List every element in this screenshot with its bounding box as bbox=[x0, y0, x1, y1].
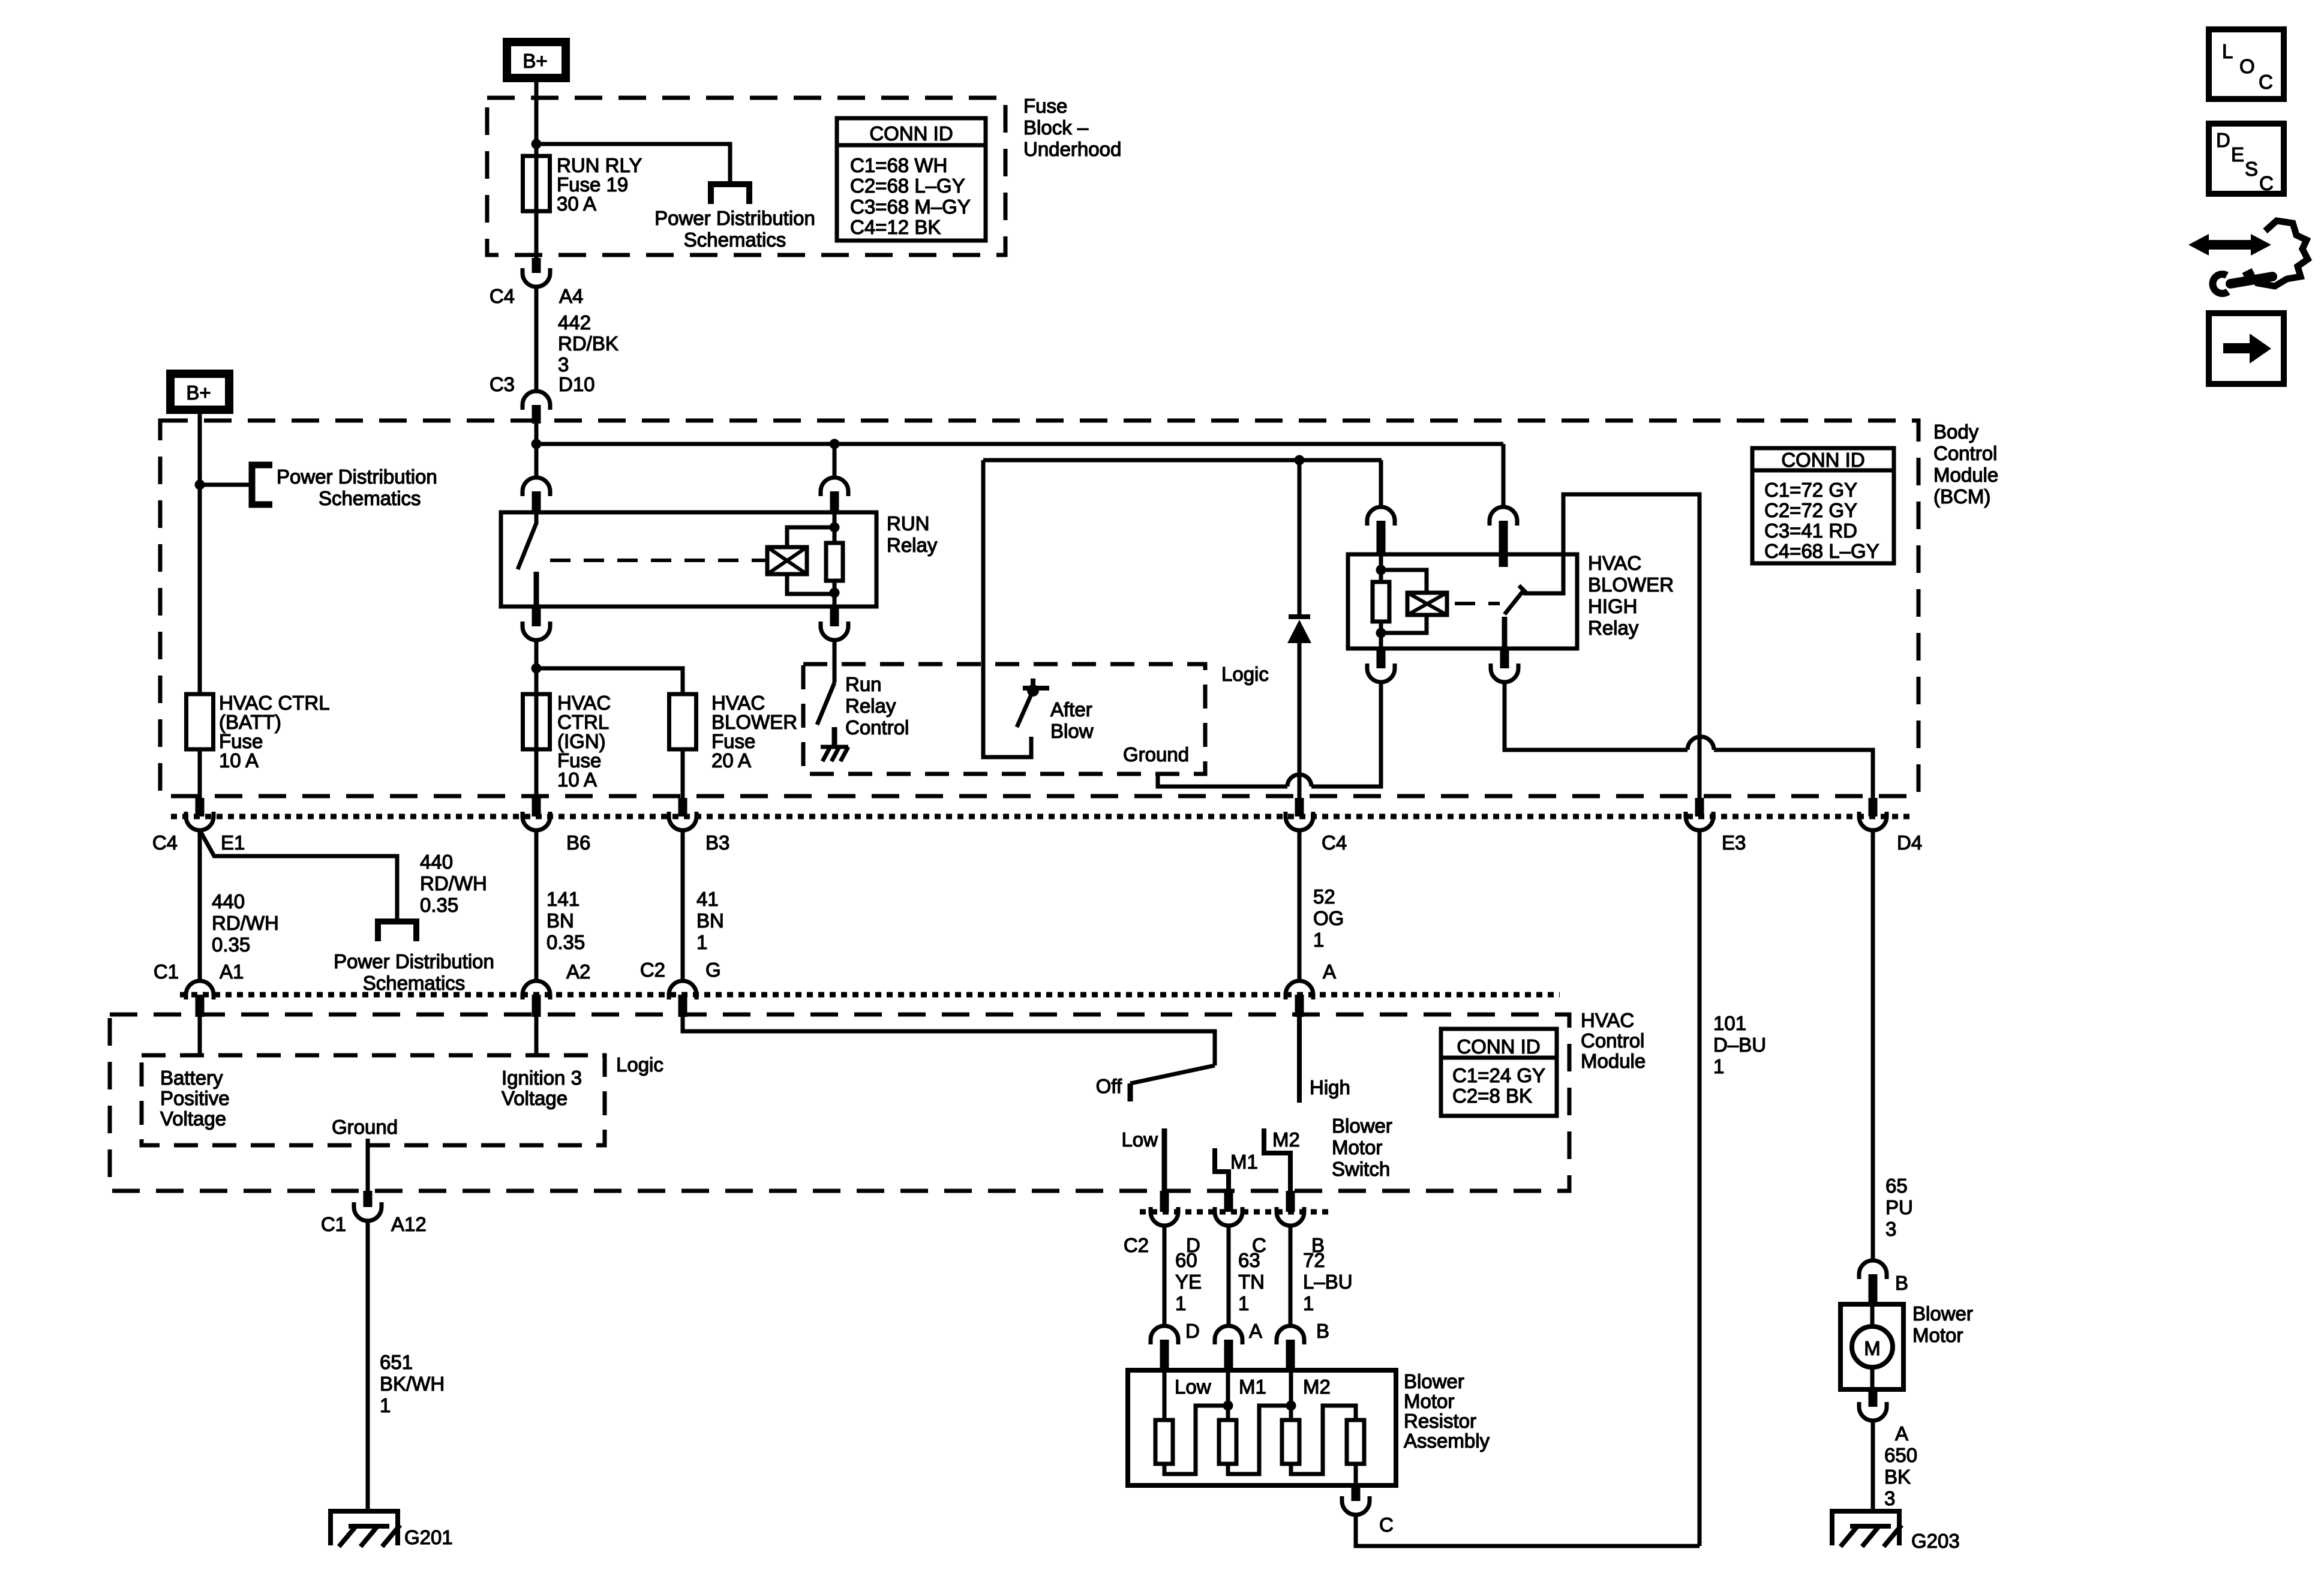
wire 442 RD/BK 3 bbox=[535, 287, 539, 391]
svg-text:141: 141 bbox=[547, 888, 580, 910]
connector C4 / A4 (fuse block to harness) bbox=[532, 258, 541, 273]
svg-text:Motor: Motor bbox=[1404, 1390, 1454, 1412]
svg-text:HVAC: HVAC bbox=[1581, 1009, 1634, 1031]
svg-text:0.35: 0.35 bbox=[547, 931, 585, 953]
RUN relay switch fixed contact bbox=[534, 572, 539, 607]
svg-text:(BCM): (BCM) bbox=[1933, 485, 1990, 508]
connector C1 / A1 (HVAC control module) bbox=[186, 981, 214, 999]
svg-text:E1: E1 bbox=[221, 831, 245, 854]
svg-text:A: A bbox=[1323, 960, 1336, 983]
svg-text:O: O bbox=[2239, 55, 2255, 77]
svg-text:After: After bbox=[1050, 698, 1092, 721]
svg-text:1: 1 bbox=[1238, 1292, 1249, 1314]
icon hood-open double arrow with wrench bbox=[2188, 234, 2271, 256]
svg-text:Relay: Relay bbox=[887, 534, 938, 556]
svg-text:C3: C3 bbox=[490, 373, 515, 395]
svg-text:Motor: Motor bbox=[1332, 1136, 1382, 1158]
svg-text:30 A: 30 A bbox=[557, 193, 596, 215]
svg-text:L: L bbox=[2222, 40, 2233, 62]
resistor Low bbox=[1163, 1371, 1167, 1420]
junction node main bus bbox=[532, 439, 542, 449]
RUN relay coil output pin (bottom) bbox=[830, 607, 839, 626]
svg-text:Positive: Positive bbox=[160, 1087, 230, 1109]
wire 41 BN 1 bbox=[681, 830, 685, 980]
svg-text:Power Distribution: Power Distribution bbox=[334, 950, 494, 972]
svg-text:RD/WH: RD/WH bbox=[420, 872, 487, 894]
svg-text:Low: Low bbox=[1175, 1376, 1211, 1398]
CONN ID table (BCM) bbox=[1752, 448, 1894, 563]
after blow switch blade bbox=[1017, 691, 1033, 727]
svg-text:D10: D10 bbox=[559, 373, 595, 395]
svg-text:B+: B+ bbox=[186, 382, 211, 404]
wire 440 RD/WH 0.35 bbox=[198, 830, 202, 980]
wire branch to power distribution bbox=[536, 144, 730, 184]
run relay control fixed contact bbox=[832, 727, 837, 746]
fuse block underhood dashed box bbox=[487, 98, 1005, 255]
HVAC control module top connector face dotted line bbox=[180, 992, 1560, 998]
svg-text:RD/WH: RD/WH bbox=[212, 912, 279, 934]
fuse HVAC CTRL (BATT) 10 A bbox=[187, 694, 214, 749]
icon forward arrow bbox=[2209, 313, 2284, 384]
svg-text:C1=24 GY: C1=24 GY bbox=[1452, 1064, 1545, 1086]
svg-text:A4: A4 bbox=[559, 285, 583, 307]
svg-text:Body: Body bbox=[1933, 421, 1979, 443]
fuse HVAC BLOWER 20 A bbox=[669, 694, 696, 749]
svg-text:C4: C4 bbox=[490, 285, 515, 307]
svg-text:C2: C2 bbox=[640, 959, 665, 981]
blower motor circle M bbox=[1852, 1326, 1893, 1367]
blower motor resistor assembly box bbox=[1128, 1370, 1396, 1485]
svg-text:Blower: Blower bbox=[1912, 1302, 1973, 1325]
wire hop over diode wire bbox=[1287, 775, 1311, 786]
svg-text:C1: C1 bbox=[154, 960, 179, 983]
svg-text:BK/WH: BK/WH bbox=[380, 1373, 445, 1395]
connector G (HVAC control module) bbox=[669, 981, 696, 999]
wire 101 D-BU 1 (to resistor assembly) bbox=[1698, 830, 1702, 1546]
svg-text:Power Distribution: Power Distribution bbox=[277, 466, 437, 488]
blower switch M1 contact bbox=[1215, 1148, 1229, 1191]
svg-text:A: A bbox=[1249, 1320, 1262, 1342]
wire 60 YE 1 bbox=[1163, 1226, 1167, 1326]
svg-text:1: 1 bbox=[380, 1394, 391, 1416]
svg-text:C1: C1 bbox=[321, 1213, 346, 1235]
svg-text:Low: Low bbox=[1121, 1128, 1158, 1151]
HVAC control module dashed box bbox=[110, 1014, 1569, 1191]
svg-text:D: D bbox=[1185, 1320, 1200, 1342]
connector E3 (BCM) bbox=[1695, 798, 1704, 816]
svg-text:BN: BN bbox=[696, 909, 724, 932]
svg-text:RD/BK: RD/BK bbox=[558, 332, 618, 355]
icon LOC bbox=[2209, 29, 2284, 99]
fuse HVAC CTRL (IGN) 10 A bbox=[523, 694, 550, 749]
svg-text:B3: B3 bbox=[705, 831, 729, 854]
svg-text:Ground: Ground bbox=[332, 1116, 398, 1138]
resistor link Low to M1 bbox=[1164, 1406, 1228, 1474]
svg-text:0.35: 0.35 bbox=[420, 894, 458, 916]
svg-text:Assembly: Assembly bbox=[1404, 1430, 1490, 1452]
ground wire from HVAC CM logic bbox=[366, 1139, 370, 1191]
svg-text:52: 52 bbox=[1313, 885, 1335, 908]
svg-text:S: S bbox=[2245, 158, 2258, 180]
wire B+ into fuse block bbox=[535, 78, 539, 260]
CONN ID table (fuse block) bbox=[837, 118, 986, 241]
svg-text:BN: BN bbox=[547, 909, 574, 932]
connector C (resistor assembly output) bbox=[1352, 1485, 1361, 1501]
run relay control switch blade bbox=[817, 683, 834, 725]
wire blower fuse to connector B3 bbox=[681, 749, 685, 798]
svg-text:Control: Control bbox=[845, 716, 909, 739]
svg-text:L–BU: L–BU bbox=[1303, 1271, 1353, 1293]
HVAC CM logic dashed box bbox=[142, 1055, 605, 1145]
svg-text:10 A: 10 A bbox=[557, 769, 597, 791]
svg-text:0.35: 0.35 bbox=[212, 933, 250, 956]
wire 41 BN to blower switch common bbox=[683, 1017, 1215, 1065]
run relay control switch wire bbox=[833, 666, 837, 683]
connector B6 (BCM) bbox=[532, 798, 541, 816]
svg-text:650: 650 bbox=[1884, 1444, 1917, 1466]
svg-text:A: A bbox=[1895, 1422, 1908, 1445]
connector A (resistor assembly) bbox=[1215, 1326, 1242, 1344]
after blow feed bus bbox=[983, 460, 1031, 757]
CONN ID table (HVAC control module) bbox=[1441, 1029, 1557, 1116]
svg-text:1: 1 bbox=[1313, 929, 1324, 951]
svg-text:C2: C2 bbox=[1124, 1234, 1149, 1256]
svg-text:Ignition 3: Ignition 3 bbox=[502, 1067, 582, 1089]
svg-text:Off: Off bbox=[1096, 1075, 1122, 1097]
svg-text:B+: B+ bbox=[523, 50, 547, 72]
junction node bbox=[532, 139, 542, 149]
svg-text:3: 3 bbox=[558, 353, 569, 376]
resistor M2 bbox=[1286, 1401, 1296, 1411]
svg-text:C4=12 BK: C4=12 BK bbox=[850, 216, 941, 238]
svg-text:C3=41 RD: C3=41 RD bbox=[1764, 520, 1857, 542]
junction node coil drop bbox=[830, 439, 840, 449]
connector C1 / A12 bbox=[364, 1191, 373, 1207]
svg-text:Schematics: Schematics bbox=[363, 972, 466, 994]
RUN relay coil pin top bbox=[833, 444, 837, 478]
svg-text:M2: M2 bbox=[1303, 1376, 1331, 1398]
blower switch M2 contact bbox=[1264, 1128, 1290, 1191]
wire 72 L-BU 1 bbox=[1289, 1226, 1293, 1326]
connector C4 / E1 (BCM pin E1) bbox=[196, 798, 205, 816]
svg-text:A1: A1 bbox=[220, 960, 244, 983]
svg-text:RUN: RUN bbox=[887, 512, 930, 535]
connector C2 pin C bbox=[1224, 1191, 1233, 1212]
power distribution schematics pointer symbol bbox=[711, 184, 749, 204]
connector D (resistor assembly) bbox=[1151, 1326, 1178, 1344]
connector C3 / D10 (into BCM) bbox=[523, 391, 550, 410]
wire 650 BK 3 bbox=[1871, 1421, 1875, 1512]
svg-text:65: 65 bbox=[1885, 1175, 1908, 1197]
svg-text:3: 3 bbox=[1884, 1487, 1895, 1509]
svg-text:63: 63 bbox=[1238, 1249, 1260, 1271]
wire branch to HVAC BLOWER fuse bbox=[536, 668, 683, 694]
power symbol B+ (BCM battery feed) bbox=[170, 374, 229, 410]
svg-text:10 A: 10 A bbox=[219, 749, 259, 772]
svg-text:E3: E3 bbox=[1722, 831, 1746, 854]
svg-text:Underhood: Underhood bbox=[1023, 138, 1121, 160]
wire to High contact bbox=[1297, 1017, 1302, 1103]
connector A (HVAC control module) bbox=[1286, 981, 1313, 999]
svg-text:C4: C4 bbox=[152, 831, 178, 854]
wire relay output to D4 with hop over E3 wire bbox=[1505, 682, 1873, 798]
svg-text:CONN ID: CONN ID bbox=[1457, 1035, 1540, 1058]
wire A1 into logic box bbox=[198, 1017, 202, 1057]
svg-text:Relay: Relay bbox=[845, 695, 896, 717]
wire E1 branch to power distribution bbox=[200, 830, 397, 921]
RUN relay switch output pin (bottom) bbox=[532, 607, 541, 626]
high relay switch blade bbox=[1505, 591, 1523, 614]
svg-text:D4: D4 bbox=[1897, 831, 1922, 854]
svg-text:HIGH: HIGH bbox=[1588, 595, 1638, 617]
RUN relay switch pin top (from bus) bbox=[535, 444, 539, 478]
high relay switch feed from E3 side bbox=[1523, 494, 1700, 798]
RUN relay switch blade bbox=[518, 514, 536, 569]
svg-text:1: 1 bbox=[1303, 1292, 1314, 1314]
svg-text:C1=72 GY: C1=72 GY bbox=[1764, 479, 1857, 501]
power symbol B+ (battery positive, fuse block feed) bbox=[507, 42, 566, 78]
svg-text:M1: M1 bbox=[1239, 1376, 1266, 1398]
resistor link M2 to output bbox=[1291, 1406, 1356, 1474]
svg-text:Control: Control bbox=[1581, 1029, 1644, 1052]
svg-text:Block –: Block – bbox=[1023, 116, 1089, 139]
body control module BCM dashed box bbox=[160, 421, 1918, 796]
wire 141 BN 0.35 bbox=[535, 830, 539, 980]
svg-text:Voltage: Voltage bbox=[160, 1107, 226, 1130]
high relay coil ground pin (bottom) bbox=[1377, 649, 1386, 668]
HVAC BLOWER HIGH relay box bbox=[1348, 554, 1577, 649]
svg-text:PU: PU bbox=[1885, 1196, 1913, 1218]
svg-text:A12: A12 bbox=[391, 1213, 427, 1235]
svg-text:60: 60 bbox=[1175, 1249, 1197, 1271]
svg-text:440: 440 bbox=[212, 890, 245, 912]
ground G203 bbox=[1832, 1511, 1899, 1545]
svg-text:M: M bbox=[1864, 1337, 1881, 1359]
svg-text:72: 72 bbox=[1303, 1249, 1325, 1271]
svg-text:Blower: Blower bbox=[1332, 1115, 1392, 1137]
svg-text:C2=72 GY: C2=72 GY bbox=[1764, 499, 1857, 521]
high relay switch fixed contact bbox=[1502, 617, 1508, 649]
connector B (resistor assembly) bbox=[1277, 1326, 1304, 1344]
svg-text:Battery: Battery bbox=[160, 1067, 223, 1089]
svg-text:Blow: Blow bbox=[1050, 720, 1094, 742]
svg-text:Power Distribution: Power Distribution bbox=[654, 207, 815, 229]
svg-text:A2: A2 bbox=[566, 960, 590, 983]
svg-text:Blower: Blower bbox=[1404, 1370, 1464, 1392]
svg-text:B: B bbox=[1895, 1272, 1908, 1294]
ground G201 bbox=[331, 1511, 398, 1545]
wire to power distribution pointer bbox=[200, 483, 252, 487]
BCM bottom connector face dotted line bbox=[171, 814, 1914, 819]
svg-text:E: E bbox=[2231, 143, 2244, 166]
ground wire from BCM logic to HVAC BLOWER HIGH relay coil bbox=[1158, 684, 1381, 786]
svg-text:B6: B6 bbox=[566, 831, 590, 854]
blower switch Low contact bbox=[1162, 1128, 1167, 1191]
svg-text:C2=8 BK: C2=8 BK bbox=[1452, 1085, 1532, 1107]
connector C4 (BCM blower switch signal) bbox=[1295, 798, 1304, 816]
svg-text:20 A: 20 A bbox=[711, 749, 751, 772]
svg-text:G: G bbox=[705, 959, 721, 981]
high relay control dashed line bbox=[1455, 602, 1500, 605]
svg-text:Fuse: Fuse bbox=[1023, 95, 1067, 117]
svg-text:1: 1 bbox=[696, 931, 707, 953]
connector D4 (BCM) bbox=[1869, 798, 1878, 816]
RUN relay control dashed line bbox=[550, 559, 766, 562]
svg-text:C: C bbox=[1379, 1514, 1394, 1536]
svg-text:1: 1 bbox=[1175, 1292, 1186, 1314]
svg-text:Voltage: Voltage bbox=[502, 1087, 568, 1109]
svg-text:OG: OG bbox=[1313, 907, 1344, 929]
svg-text:BK: BK bbox=[1884, 1466, 1911, 1488]
svg-text:Switch: Switch bbox=[1332, 1158, 1390, 1180]
svg-text:G203: G203 bbox=[1911, 1530, 1960, 1552]
high relay switch feed pin (top, from run bus) bbox=[1502, 444, 1506, 507]
svg-text:442: 442 bbox=[558, 311, 591, 334]
resistor M1 bbox=[1223, 1401, 1233, 1411]
svg-text:Resistor: Resistor bbox=[1404, 1410, 1476, 1432]
resistor output element bbox=[1347, 1420, 1364, 1464]
main bus wire inside BCM (run power) bbox=[536, 420, 1503, 444]
high relay coil pin (top) bbox=[1379, 460, 1383, 507]
svg-text:HVAC: HVAC bbox=[1588, 552, 1641, 574]
wire B+ into BCM down to HVAC CTRL BATT fuse bbox=[198, 410, 202, 694]
svg-text:651: 651 bbox=[380, 1351, 413, 1373]
svg-text:M1: M1 bbox=[1230, 1151, 1258, 1173]
chassis ground (run relay control) bbox=[821, 745, 848, 749]
svg-text:TN: TN bbox=[1238, 1271, 1265, 1293]
icon DESC bbox=[2209, 124, 2284, 194]
svg-text:CONN ID: CONN ID bbox=[869, 122, 953, 145]
svg-text:G201: G201 bbox=[404, 1526, 453, 1548]
svg-text:Logic: Logic bbox=[1221, 663, 1269, 685]
svg-text:41: 41 bbox=[696, 888, 719, 910]
svg-text:Logic: Logic bbox=[616, 1053, 663, 1076]
svg-text:D: D bbox=[2216, 129, 2230, 151]
svg-text:Module: Module bbox=[1933, 464, 1998, 486]
svg-text:C1=68 WH: C1=68 WH bbox=[850, 154, 947, 176]
after blow switch pivot bbox=[1023, 679, 1049, 688]
junction node blower fuse branch bbox=[532, 664, 542, 674]
svg-text:Motor: Motor bbox=[1912, 1324, 1963, 1346]
svg-text:C4: C4 bbox=[1322, 831, 1347, 854]
svg-text:C: C bbox=[2259, 172, 2274, 194]
svg-text:YE: YE bbox=[1175, 1271, 1202, 1293]
wire fuse to connector C4/E1 bbox=[198, 749, 202, 798]
diode (cathode bar + triangle) bbox=[1289, 614, 1310, 619]
wire 52 OG 1 bbox=[1298, 830, 1302, 980]
connector C2 pin B bbox=[1286, 1191, 1295, 1212]
wire A2 into logic box bbox=[535, 1017, 539, 1057]
svg-text:Module: Module bbox=[1581, 1050, 1646, 1072]
svg-text:C3=68 M–GY: C3=68 M–GY bbox=[850, 196, 971, 218]
svg-text:101: 101 bbox=[1713, 1012, 1746, 1034]
connector A2 (HVAC control module) bbox=[523, 981, 550, 999]
diode wire from bus bbox=[1298, 460, 1302, 614]
RUN relay coil + parallel resistor bbox=[787, 527, 834, 594]
wire 63 TN 1 bbox=[1227, 1226, 1231, 1326]
svg-text:BLOWER: BLOWER bbox=[1588, 574, 1674, 596]
HVAC CM bottom connector face dotted line bbox=[1140, 1209, 1329, 1215]
svg-text:440: 440 bbox=[420, 851, 453, 873]
svg-text:3: 3 bbox=[1885, 1218, 1896, 1240]
high relay switch output pin (bottom) bbox=[1500, 649, 1509, 668]
junction node bbox=[195, 480, 205, 490]
svg-text:Schematics: Schematics bbox=[684, 229, 786, 251]
svg-text:CONN ID: CONN ID bbox=[1781, 449, 1864, 471]
blower switch Off contact blade bbox=[1130, 1065, 1215, 1083]
after blow bus corner junction on diode wire bbox=[983, 458, 1382, 463]
power distribution schematics pointer symbol (left) bbox=[252, 465, 272, 505]
blower motor box bbox=[1840, 1304, 1903, 1389]
diode wire to connector C4 bbox=[1298, 641, 1302, 798]
resistor link M1 to M2 bbox=[1228, 1406, 1291, 1474]
svg-text:1: 1 bbox=[1713, 1055, 1724, 1077]
wire IGN fuse to connector B6 bbox=[535, 749, 539, 798]
connector C2 pin D bbox=[1160, 1191, 1169, 1212]
svg-text:M2: M2 bbox=[1272, 1128, 1300, 1151]
connector B (blower motor) bbox=[1859, 1260, 1887, 1279]
wire 651 BK/WH 1 bbox=[366, 1221, 370, 1512]
svg-text:Ground: Ground bbox=[1123, 743, 1189, 766]
RUN relay box bbox=[501, 512, 876, 607]
svg-text:C2=68 L–GY: C2=68 L–GY bbox=[850, 175, 965, 197]
svg-text:Schematics: Schematics bbox=[319, 487, 421, 509]
fuse RUN RLY Fuse 19 30 A bbox=[523, 156, 550, 211]
svg-text:D–BU: D–BU bbox=[1713, 1034, 1766, 1056]
svg-text:C4=68 L–GY: C4=68 L–GY bbox=[1764, 540, 1879, 562]
wire resistor output to BCM E3 net bbox=[1356, 1515, 1700, 1546]
svg-text:B: B bbox=[1316, 1320, 1329, 1342]
wire 65 PU 3 (to blower motor) bbox=[1871, 830, 1875, 1259]
connector B3 (BCM) bbox=[678, 798, 687, 816]
svg-text:C: C bbox=[2259, 71, 2273, 93]
connector A (blower motor) bbox=[1869, 1389, 1878, 1407]
svg-text:Run: Run bbox=[845, 673, 882, 695]
svg-text:Control: Control bbox=[1933, 442, 1997, 464]
high relay coil + parallel resistor bbox=[1381, 570, 1427, 633]
svg-text:High: High bbox=[1310, 1076, 1350, 1098]
power distribution schematics pointer (E1 branch) bbox=[378, 921, 416, 941]
BCM logic dashed box bbox=[803, 664, 1205, 774]
svg-text:Relay: Relay bbox=[1588, 617, 1639, 639]
